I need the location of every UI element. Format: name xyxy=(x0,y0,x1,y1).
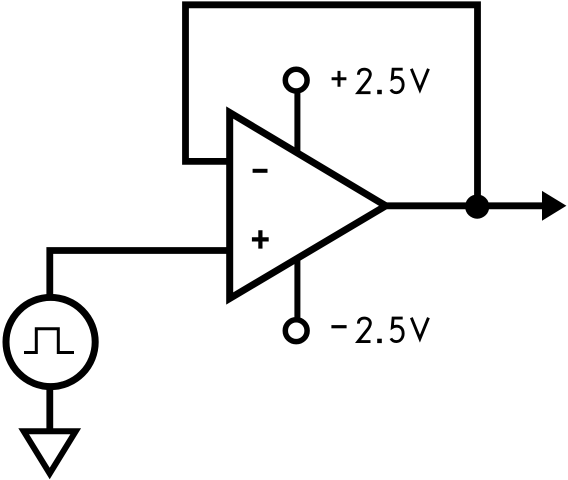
wire positive supply xyxy=(294,91,300,156)
ground symbol xyxy=(24,431,76,473)
node output junction dot xyxy=(465,195,489,219)
label -2.5V minus sign xyxy=(331,325,346,328)
label +2.5V plus sign xyxy=(332,71,347,87)
label -2.5V digit 2 xyxy=(358,318,371,342)
label +2.5V decimal point xyxy=(377,90,382,94)
label +2.5V digit 2 xyxy=(358,69,371,93)
label +2.5V digit 5 xyxy=(391,69,403,93)
terminal +2.5V open circle xyxy=(285,69,307,91)
wire source to ground xyxy=(46,388,53,430)
wire negative supply xyxy=(294,252,300,319)
output arrow head xyxy=(542,191,566,221)
wire non-inverting input from source to op-amp xyxy=(50,251,233,297)
label +2.5V letter V xyxy=(411,69,428,90)
op-amp inverting input minus sign xyxy=(253,169,268,173)
wire feedback loop: left vertical, top horizontal, right vertical xyxy=(186,5,478,206)
terminal -2.5V open circle xyxy=(285,320,307,342)
label -2.5V digit 5 xyxy=(391,318,403,342)
wire output xyxy=(384,202,546,209)
op-amp non-inverting input plus sign xyxy=(252,230,269,248)
label -2.5V decimal point xyxy=(377,339,382,343)
label -2.5V letter V xyxy=(411,318,428,339)
source VG1 pulse generator circle xyxy=(6,297,95,386)
op-amp U1 triangle xyxy=(230,113,386,299)
source VG1 pulse waveform symbol xyxy=(24,329,74,353)
